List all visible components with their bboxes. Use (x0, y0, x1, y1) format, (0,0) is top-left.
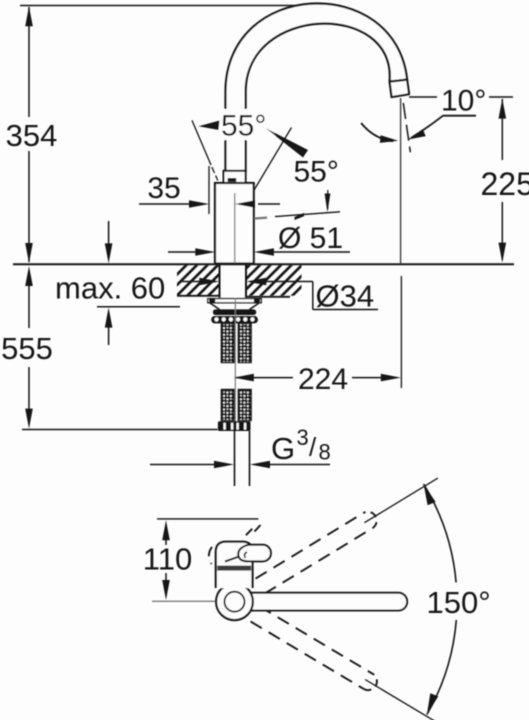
svg-text:354: 354 (6, 118, 58, 153)
faucet base body (215, 183, 254, 264)
arc 10deg right (408, 116, 476, 140)
svg-text:555: 555 (1, 331, 53, 366)
svg-text:8: 8 (319, 440, 331, 465)
plumb line from spout (400, 98, 402, 264)
svg-text:55°: 55° (221, 110, 266, 143)
outlet level line (409, 96, 513, 98)
svg-text:/: / (309, 432, 317, 462)
spout arm top view (236, 593, 407, 611)
hose left lower (221, 390, 234, 421)
svg-text:Ø34: Ø34 (316, 279, 375, 314)
countertop line (13, 263, 514, 265)
collar (224, 171, 246, 183)
top view center line (152, 600, 232, 602)
mounting washer (208, 298, 261, 303)
shank (220, 264, 247, 298)
svg-text:max. 60: max. 60 (55, 271, 165, 306)
dimension dia51 (168, 248, 350, 256)
hose end fittings (218, 421, 251, 431)
swivel base circle (216, 583, 253, 620)
svg-text:150°: 150° (427, 585, 491, 620)
washer cone sides (210, 303, 259, 310)
extension line hose end level (22, 429, 218, 431)
dashed lever rotated (209, 525, 261, 564)
supply pipe ends (235, 431, 250, 486)
dashed spout arm upper (256, 512, 377, 594)
dimension 555 (25, 266, 33, 429)
mounting nut top (213, 309, 256, 315)
svg-text:Ø 51: Ø 51 (278, 222, 343, 255)
dimension max60 (97, 221, 180, 345)
body band (217, 566, 251, 571)
hose right lower (238, 390, 251, 421)
svg-text:3: 3 (297, 425, 309, 450)
spout tube (226, 3, 408, 172)
dimension text G38 (271, 425, 331, 466)
svg-text:10°: 10° (441, 85, 486, 118)
tilted outlet line (403, 103, 410, 152)
dimension dia34 (180, 278, 378, 310)
arrow right 55 (266, 128, 308, 157)
lever line right 55 (254, 128, 292, 192)
svg-text:G: G (271, 431, 295, 466)
leader arrow 55 second (325, 190, 331, 213)
extension line top view upper (157, 518, 259, 520)
lever inner line (245, 552, 247, 558)
dimension 110 (162, 520, 170, 600)
svg-text:110: 110 (143, 542, 192, 577)
lever closed line (255, 212, 341, 220)
arc 10deg left (361, 123, 398, 143)
countertop hatch right (247, 265, 302, 297)
arrow left 55 (199, 121, 220, 130)
spout nozzle (390, 80, 410, 98)
hose left upper (221, 324, 234, 363)
lever line left 55 (192, 120, 218, 180)
dimension line 354 (25, 6, 33, 263)
dimension G38 (150, 461, 330, 469)
base center line (234, 193, 236, 263)
dashed spout arm lower (251, 606, 377, 690)
dimension 225 (499, 99, 507, 263)
extension line spout outlet (400, 276, 402, 388)
swivel arc 150 (424, 484, 457, 714)
collar mark (228, 178, 237, 182)
hose right upper (238, 324, 251, 363)
text mask 55 first (221, 109, 275, 140)
extension line upper arm (364, 478, 438, 523)
svg-text:224: 224 (298, 363, 348, 396)
svg-text:225: 225 (481, 166, 529, 202)
lever top view (238, 545, 271, 562)
body top view (216, 542, 253, 588)
supply center line (234, 298, 236, 430)
svg-text:55°: 55° (294, 156, 339, 189)
dimension 35 (139, 166, 280, 214)
swivel inner circle (225, 592, 245, 612)
dimension 224 (234, 374, 401, 382)
mounting nut knurled (211, 316, 258, 323)
countertop hatch left (177, 265, 219, 296)
svg-text:35: 35 (147, 172, 180, 205)
extension line lower arm (365, 680, 439, 720)
extension line spout top level (20, 5, 308, 7)
